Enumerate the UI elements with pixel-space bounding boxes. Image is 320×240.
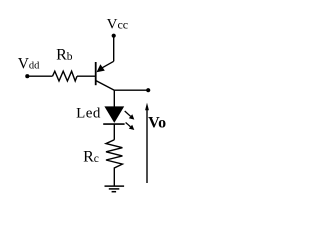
LED emission arrow lower xyxy=(126,123,135,131)
svg-text:Rc: Rc xyxy=(83,148,99,165)
ground xyxy=(105,186,125,192)
transistor Q1 base bar xyxy=(95,62,97,85)
wire collector to output node xyxy=(114,89,148,91)
svg-text:Vcc: Vcc xyxy=(107,17,129,33)
LED D1 anode triangle xyxy=(104,106,124,123)
transistor Q1 emitter lead with arrow (PNP) xyxy=(97,61,114,72)
svg-text:Led: Led xyxy=(76,106,101,122)
node output dot xyxy=(146,88,150,92)
LED emission arrow upper xyxy=(125,111,135,120)
transistor Q1 collector lead xyxy=(96,81,115,91)
wire Rb to base xyxy=(77,75,96,77)
resistor Rc xyxy=(106,140,122,171)
svg-text:Vo: Vo xyxy=(148,114,166,131)
LED D1 cathode bar xyxy=(103,123,124,125)
resistor Rb xyxy=(53,71,78,81)
wire Rc to ground xyxy=(113,171,115,187)
svg-text:Vdd: Vdd xyxy=(18,55,40,72)
output arrow Vo xyxy=(145,103,149,183)
node Vcc dot xyxy=(112,34,116,38)
svg-text:Rb: Rb xyxy=(56,47,73,64)
node Vdd dot xyxy=(25,74,29,78)
wire Vdd to Rb xyxy=(27,75,52,77)
wire emitter vertical from Vcc node xyxy=(113,36,115,62)
wire collector down to LED xyxy=(113,90,115,107)
wire LED to Rc xyxy=(113,124,115,140)
